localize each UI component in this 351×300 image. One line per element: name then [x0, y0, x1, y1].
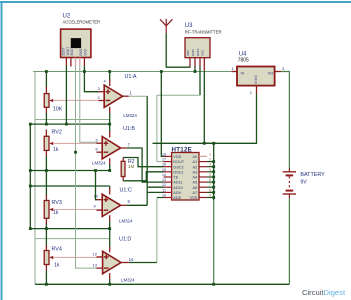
svg-text:LM324: LM324 [123, 113, 137, 118]
svg-text:A7: A7 [193, 191, 198, 195]
svg-text:DOUT: DOUT [173, 160, 184, 164]
svg-text:U3: U3 [185, 23, 193, 29]
accelerometer U2 [61, 14, 101, 58]
svg-text:1: 1 [130, 91, 133, 96]
svg-text:U4: U4 [239, 51, 247, 57]
svg-text:LM324: LM324 [92, 161, 106, 166]
wire U1:C power bottom [109, 222, 111, 229]
wire U1:C power top [109, 186, 111, 188]
U2 pin 3 [75, 58, 77, 67]
wire U1:A out to AD10 [129, 95, 147, 97]
antenna AN1 [160, 19, 172, 34]
svg-text:A1: A1 [193, 160, 198, 164]
svg-text:XOUT: XOUT [70, 47, 74, 56]
right pin links to bus [207, 162, 214, 198]
svg-text:U1:B: U1:B [123, 126, 135, 132]
wire OSC2 loop [123, 158, 163, 167]
right pin stubs [199, 156, 207, 197]
svg-text:BATTERY: BATTERY [300, 172, 325, 178]
svg-text:13: 13 [93, 263, 98, 268]
svg-text:VI: VI [241, 71, 245, 76]
wire pale rail y=238.6 [35, 238, 110, 240]
wire rail y=186 from pale bus [30, 185, 109, 187]
wire rail3 y=170.5 [30, 170, 110, 172]
svg-text:VCC: VCC [201, 49, 205, 56]
svg-text:2: 2 [98, 95, 101, 100]
wire pale rail y=119.5 [35, 119, 110, 121]
svg-text:AD10: AD10 [173, 186, 183, 190]
svg-text:2: 2 [250, 90, 253, 95]
svg-text:VO: VO [268, 71, 274, 76]
svg-text:AD8: AD8 [173, 196, 180, 200]
svg-text:5: 5 [96, 138, 99, 143]
wire U1:C out to AD9 [127, 204, 147, 206]
svg-text:7: 7 [128, 143, 131, 148]
svg-text:ANT: ANT [186, 50, 190, 56]
wire ground bus from U4/RF to chip and ground [153, 142, 214, 144]
potentiometer 10K [44, 94, 102, 113]
svg-text:U1:A: U1:A [125, 74, 137, 80]
svg-text:AD11: AD11 [173, 181, 182, 185]
svg-text:RV3: RV3 [52, 200, 62, 206]
svg-text:OSC2: OSC2 [173, 165, 183, 169]
wire rail2 y=124.9 [30, 123, 110, 125]
svg-text:9: 9 [94, 204, 97, 209]
wire ground rail y=284.3 [35, 283, 289, 285]
wire left bus vertical dark x=30.3 [29, 124, 31, 229]
wire U1:D power bottom [109, 279, 111, 285]
svg-text:RV4: RV4 [52, 247, 62, 253]
svg-text:RV2: RV2 [52, 130, 62, 136]
svg-text:A5: A5 [193, 181, 198, 185]
svg-text:8: 8 [128, 199, 131, 204]
wire U1:A power top [109, 72, 111, 80]
svg-text:A4: A4 [193, 176, 198, 180]
svg-text:1k: 1k [53, 147, 59, 153]
wire OSC1 loop [123, 172, 163, 181]
wire U1:A power bottom [109, 113, 111, 124]
svg-text:VDD: VDD [173, 155, 181, 159]
wire antenna to RF ANT pin [166, 33, 190, 67]
svg-text:CircuitDigest: CircuitDigest [302, 288, 346, 297]
wire U1:B power top [109, 124, 111, 131]
pot column wires x=47.2 [45, 87, 47, 272]
svg-text:12: 12 [93, 251, 98, 256]
U3 pin 2 VCC [194, 58, 196, 67]
wire main +V rail y=71.5 [33, 71, 231, 73]
potentiometer RV2 [44, 130, 102, 153]
wire U1:D power top [109, 229, 111, 247]
op-amp U1:B [92, 126, 135, 166]
wire U1:B power bottom [109, 165, 111, 171]
regulator U4 7805 [232, 51, 286, 95]
potentiometer RV3 [44, 200, 102, 218]
encoder HT12E [162, 147, 214, 201]
wire rail4 y=229.5 [30, 228, 110, 230]
svg-text:AD9: AD9 [173, 191, 180, 195]
svg-text:LM324: LM324 [119, 219, 133, 224]
U4 output pin to battery [275, 71, 281, 73]
svg-text:LM324: LM324 [121, 278, 135, 283]
svg-text:7805: 7805 [238, 58, 249, 64]
U2 pin 1 [65, 58, 67, 67]
svg-text:VDD: VDD [84, 48, 88, 55]
logo CircuitDigest [302, 288, 346, 297]
wire U1:B out to AD11 [127, 148, 164, 182]
svg-text:1: 1 [209, 152, 211, 156]
svg-text:14: 14 [129, 257, 134, 262]
U3 pin 1 ANT [189, 58, 191, 67]
svg-text:U1:C: U1:C [120, 187, 132, 193]
wire battery bottom to ground rail [288, 198, 290, 284]
svg-text:1k: 1k [53, 210, 59, 216]
svg-text:10K: 10K [53, 107, 63, 113]
svg-text:3: 3 [98, 86, 101, 91]
U2 pin 4 [79, 58, 81, 67]
svg-text:4: 4 [104, 79, 107, 84]
svg-text:ACCELEROMETER: ACCELEROMETER [63, 19, 101, 24]
svg-text:A6: A6 [193, 186, 198, 190]
wire VDD drop from rail [161, 72, 163, 157]
U4 input pin [231, 71, 237, 73]
RF transmitter U3 [185, 23, 222, 58]
resistor R2 oscillator [121, 158, 134, 181]
wire U1:D out to AD8 [129, 262, 157, 264]
left pin stubs [164, 156, 172, 197]
U2 pin 5 [83, 58, 85, 67]
U3 pin 4 GND [203, 58, 205, 71]
svg-text:DATA: DATA [196, 47, 200, 56]
wire address bus down to ground [213, 143, 215, 200]
svg-text:1k: 1k [54, 263, 60, 269]
svg-text:9V: 9V [300, 180, 307, 186]
svg-text:VSS: VSS [190, 196, 198, 200]
op-amp U1:A [98, 74, 138, 118]
svg-text:1: 1 [232, 66, 235, 71]
U4 ground pin down [256, 86, 258, 94]
svg-text:3: 3 [282, 66, 285, 71]
potentiometer RV4 [44, 247, 102, 269]
svg-text:TE: TE [173, 176, 178, 180]
svg-text:U1:D: U1:D [119, 237, 131, 243]
svg-text:RF-TRANSMITTER: RF-TRANSMITTER [185, 29, 222, 34]
op-amp U1:D [93, 237, 135, 283]
U2 pin 2 [70, 58, 72, 67]
op-amp U1:C [94, 187, 133, 223]
svg-text:A3: A3 [193, 170, 198, 174]
svg-text:6: 6 [96, 147, 99, 152]
U3 pin 3 DATA [199, 58, 201, 67]
wire pale left vertical x=35 [34, 72, 36, 285]
svg-text:OSC1: OSC1 [173, 170, 183, 174]
svg-text:A2: A2 [193, 165, 198, 169]
svg-text:GND: GND [191, 49, 195, 57]
svg-text:A0: A0 [193, 155, 198, 159]
wire U1:C +in from rail3 [96, 171, 97, 200]
battery BAT1 [283, 168, 325, 198]
svg-text:1M: 1M [128, 164, 135, 169]
